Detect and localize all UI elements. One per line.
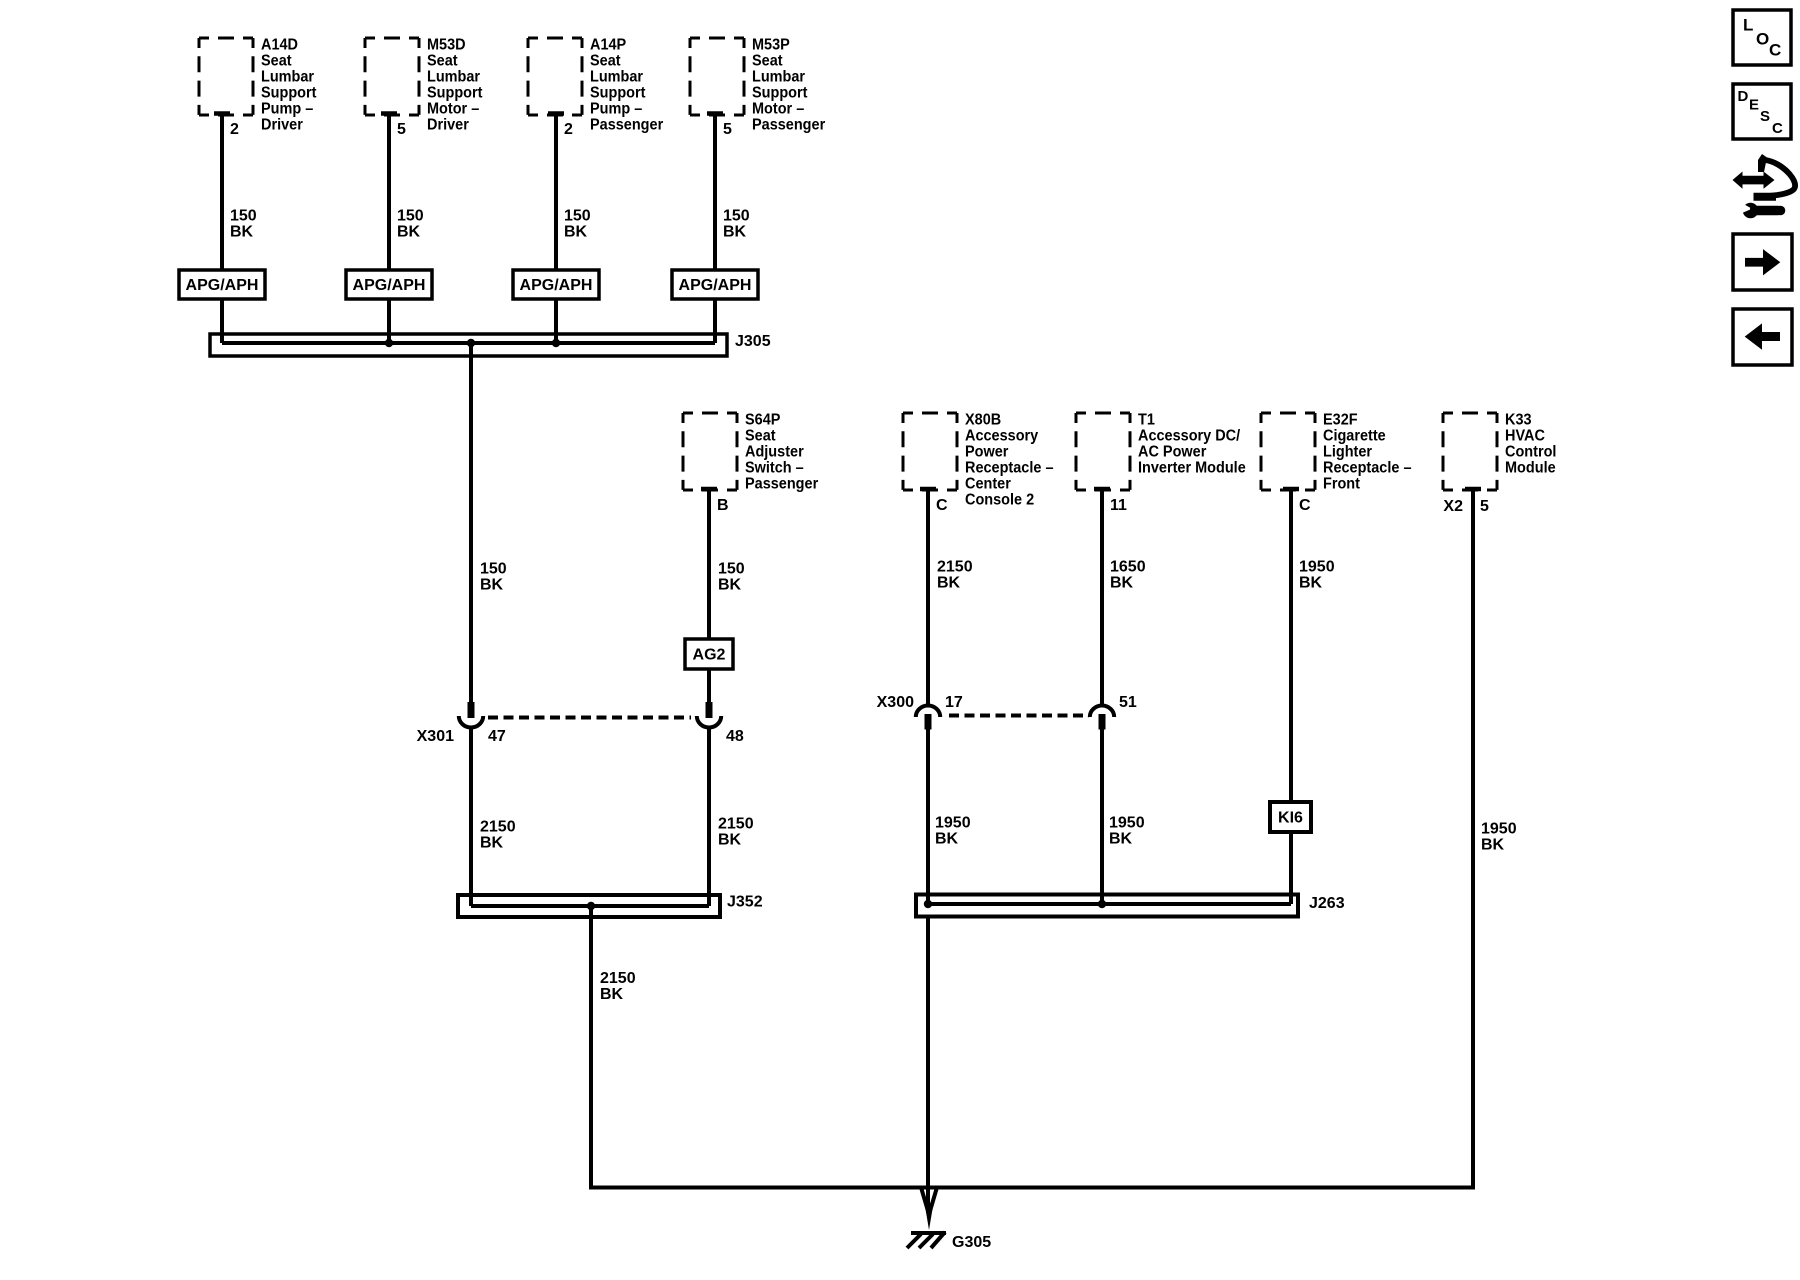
harness code AG2 — [685, 639, 733, 669]
wire X301-47 to splice J352 — [469, 727, 473, 906]
svg-text:A14DSeatLumbarSupportPump –Dri: A14DSeatLumbarSupportPump –Driver — [261, 36, 316, 134]
svg-text:APG/APH: APG/APH — [520, 277, 593, 294]
wire AG2 to X301 pin 48 — [707, 669, 711, 702]
wire M53P to splice J305 — [713, 299, 717, 343]
wire S64P pin B to AG2 — [707, 489, 711, 639]
svg-text:150BK: 150BK — [230, 208, 257, 241]
wire A14P to splice J305 — [554, 299, 558, 343]
svg-text:X2: X2 — [1443, 498, 1463, 515]
svg-text:G305: G305 — [952, 1234, 991, 1251]
svg-text:J263: J263 — [1309, 895, 1345, 912]
K33 terminal stub — [1465, 487, 1481, 492]
T1 terminal stub — [1094, 487, 1110, 492]
component M53D dashed box — [365, 38, 419, 115]
component S64P dashed box — [683, 413, 737, 490]
svg-text:J352: J352 — [727, 894, 763, 911]
M53D name label — [427, 36, 482, 134]
svg-text:150BK: 150BK — [564, 208, 591, 241]
junction X300-17 at J263 — [924, 900, 932, 908]
svg-text:C: C — [1299, 497, 1311, 514]
svg-text:150BK: 150BK — [397, 208, 424, 241]
component K33 dashed box — [1443, 413, 1497, 490]
svg-text:AG2: AG2 — [693, 647, 726, 664]
wire A14D pin 2 to fuse label — [220, 114, 224, 271]
junction A14P at J305 — [552, 339, 560, 347]
svg-text:47: 47 — [488, 728, 506, 745]
svg-text:1950BK: 1950BK — [1481, 821, 1517, 854]
junction X300-51 at J263 — [1098, 900, 1106, 908]
icon DESC button — [1733, 84, 1791, 139]
wire T1 pin 11 to X300 pin 51 — [1100, 489, 1104, 705]
icon jump-to-wiring (arrows and wrench) — [1733, 154, 1796, 218]
wire A14P pin 2 to fuse label — [554, 114, 558, 271]
M53P terminal stub — [707, 111, 723, 116]
svg-text:51: 51 — [1119, 694, 1137, 711]
A14P name label — [590, 36, 663, 134]
wire KI6 to splice J263 — [1289, 832, 1293, 904]
svg-text:5: 5 — [723, 121, 732, 138]
component X80B dashed box — [903, 413, 957, 490]
wire M53P pin 5 to fuse label — [713, 114, 717, 271]
harness code APG/APH (A14D) — [179, 270, 265, 299]
junction tap at J352 — [587, 902, 595, 910]
harness code APG/APH (M53P) — [672, 270, 758, 299]
harness code KI6 — [1270, 802, 1311, 832]
svg-text:A14PSeatLumbarSupportPump –Pas: A14PSeatLumbarSupportPump –Passenger — [590, 36, 663, 134]
icon forward arrow button — [1733, 234, 1792, 290]
component A14D dashed box — [199, 38, 253, 115]
junction tap at J305 — [467, 339, 475, 347]
wire X300-51 to splice J263 — [1100, 730, 1104, 905]
svg-text:APG/APH: APG/APH — [186, 277, 259, 294]
splice pack J352 outer — [458, 895, 720, 917]
svg-text:KI6: KI6 — [1278, 810, 1303, 827]
K33 name label — [1505, 411, 1556, 477]
svg-text:150BK: 150BK — [723, 208, 750, 241]
connector X301 pin 48 — [697, 702, 721, 728]
S64P terminal stub — [701, 487, 717, 492]
ground junction crowfoot — [922, 1189, 937, 1211]
wire A14D to splice J305 — [220, 299, 224, 343]
svg-text:2150BK: 2150BK — [937, 559, 973, 592]
svg-text:B: B — [717, 497, 729, 514]
wire X80B pin C to X300 pin 17 — [926, 489, 930, 705]
E32F terminal stub — [1283, 487, 1299, 492]
svg-text:X300: X300 — [877, 694, 914, 711]
svg-text:1950BK: 1950BK — [1109, 815, 1145, 848]
svg-text:2150BK: 2150BK — [480, 819, 516, 852]
svg-text:T1Accessory DC/AC PowerInverte: T1Accessory DC/AC PowerInverter Module — [1138, 411, 1246, 477]
E32F name label — [1323, 411, 1412, 493]
X80B terminal stub — [920, 487, 936, 492]
svg-text:5: 5 — [1480, 498, 1489, 515]
X301 mating dashed line — [488, 716, 691, 720]
harness code APG/APH (A14P) — [513, 270, 599, 299]
ground run horizontal — [591, 1186, 1473, 1190]
M53D terminal stub — [381, 111, 397, 116]
wire K33 to ground run — [1471, 489, 1475, 1190]
svg-text:1650BK: 1650BK — [1110, 559, 1146, 592]
svg-text:S64PSeatAdjusterSwitch –Passen: S64PSeatAdjusterSwitch –Passenger — [745, 411, 818, 493]
connector X300 pin 17 — [916, 706, 940, 730]
wire J352 to ground run — [589, 906, 593, 1190]
wire X300-17 to splice J263 — [926, 730, 930, 905]
svg-text:APG/APH: APG/APH — [353, 277, 426, 294]
X80B name label — [965, 411, 1054, 509]
connector X301 pin 47 — [459, 702, 483, 728]
svg-text:17: 17 — [945, 694, 963, 711]
svg-text:M53DSeatLumbarSupportMotor –Dr: M53DSeatLumbarSupportMotor –Driver — [427, 36, 482, 134]
svg-text:2: 2 — [230, 121, 239, 138]
component A14P dashed box — [528, 38, 582, 115]
wire J263 to ground G305 — [926, 916, 930, 1213]
svg-text:2150BK: 2150BK — [600, 970, 636, 1003]
X300 mating dashed line — [949, 714, 1089, 718]
svg-text:M53PSeatLumbarSupportMotor –Pa: M53PSeatLumbarSupportMotor –Passenger — [752, 36, 825, 134]
J352 internal bus — [471, 904, 709, 908]
J263 internal bus — [928, 902, 1291, 906]
junction M53D at J305 — [385, 339, 393, 347]
svg-text:150BK: 150BK — [480, 561, 507, 594]
splice pack J263 outer — [916, 895, 1298, 917]
svg-text:DESC: DESC — [1738, 88, 1784, 137]
svg-text:APG/APH: APG/APH — [679, 277, 752, 294]
svg-text:X301: X301 — [417, 728, 454, 745]
wire M53D pin 5 to fuse label — [387, 114, 391, 271]
svg-text:150BK: 150BK — [718, 561, 745, 594]
J305 internal bus — [222, 341, 715, 345]
M53P name label — [752, 36, 825, 134]
connector X300 pin 51 — [1090, 706, 1114, 730]
wire M53D to splice J305 — [387, 299, 391, 343]
svg-text:LOC: LOC — [1743, 16, 1781, 60]
wire J305 to X301 pin 47 — [469, 343, 473, 702]
wire E32F pin C to KI6 — [1289, 489, 1293, 802]
T1 name label — [1138, 411, 1246, 477]
svg-text:K33HVACControlModule: K33HVACControlModule — [1505, 411, 1556, 477]
A14D terminal stub — [214, 111, 230, 116]
svg-text:2: 2 — [564, 121, 573, 138]
svg-text:J305: J305 — [735, 333, 771, 350]
svg-text:X80BAccessoryPowerReceptacle –: X80BAccessoryPowerReceptacle –CenterCons… — [965, 411, 1054, 509]
A14D name label — [261, 36, 316, 134]
svg-text:C: C — [936, 497, 948, 514]
splice pack J305 outer — [210, 334, 727, 356]
ground symbol G305 — [907, 1232, 946, 1248]
harness code APG/APH (M53D) — [346, 270, 432, 299]
component T1 dashed box — [1076, 413, 1130, 490]
S64P name label — [745, 411, 818, 493]
A14P terminal stub — [548, 111, 564, 116]
svg-text:11: 11 — [1110, 497, 1127, 514]
svg-text:E32FCigaretteLighterReceptacle: E32FCigaretteLighterReceptacle –Front — [1323, 411, 1412, 493]
svg-text:1950BK: 1950BK — [1299, 559, 1335, 592]
wire X301-48 to splice J352 — [707, 727, 711, 906]
component E32F dashed box — [1261, 413, 1315, 490]
icon LOC button — [1733, 10, 1791, 65]
svg-text:1950BK: 1950BK — [935, 815, 971, 848]
svg-text:2150BK: 2150BK — [718, 816, 754, 849]
svg-text:48: 48 — [726, 728, 744, 745]
icon back arrow button — [1733, 309, 1792, 365]
svg-text:5: 5 — [397, 121, 406, 138]
component M53P dashed box — [690, 38, 744, 115]
